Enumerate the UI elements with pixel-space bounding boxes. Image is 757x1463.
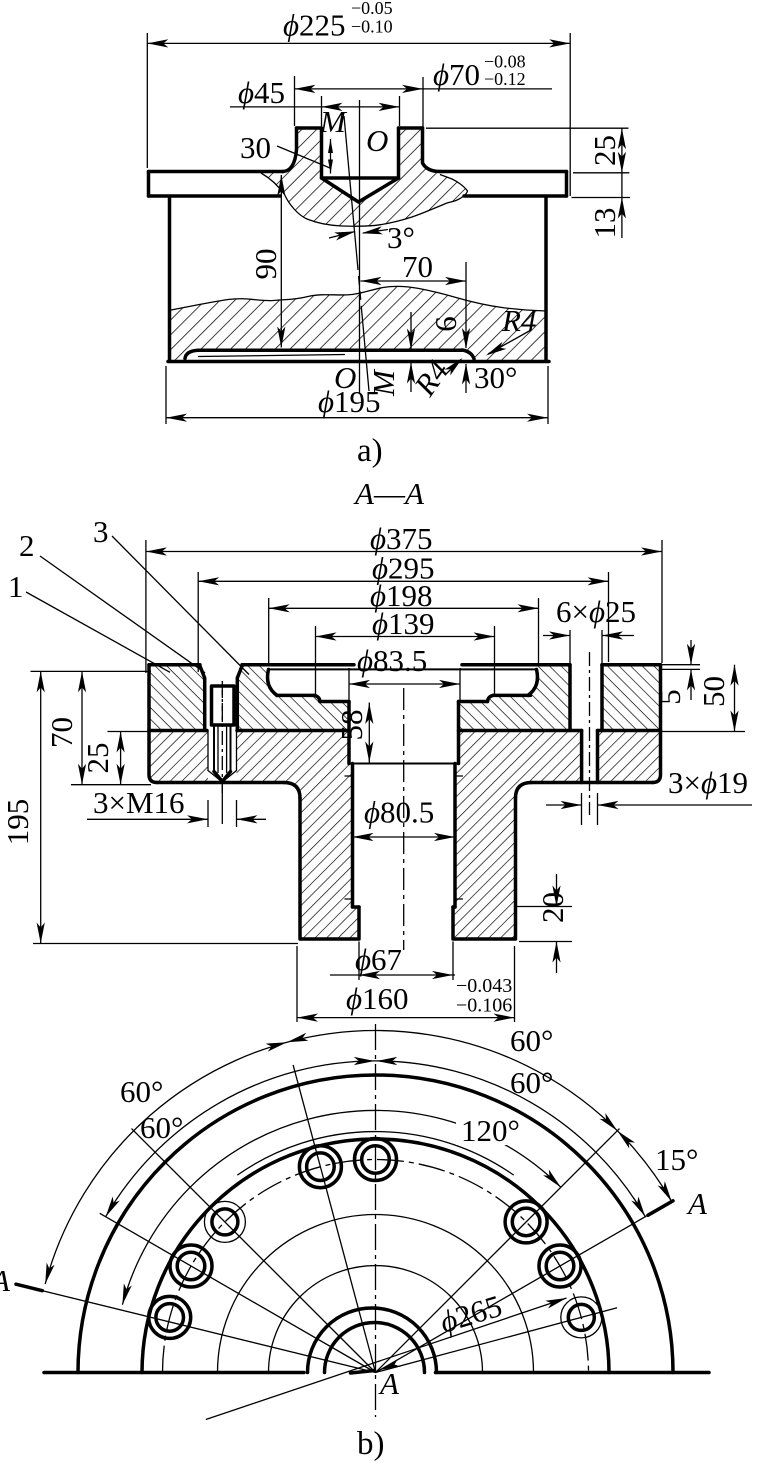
hole 90deg (355, 1139, 397, 1181)
M axis (344, 116, 357, 261)
plate top surface (149, 663, 661, 667)
svg-text:b): b) (357, 1426, 385, 1462)
wavy break line of bottom band (171, 286, 546, 311)
dim 3xphi19 (546, 765, 752, 825)
svg-text:M: M (319, 104, 348, 139)
svg-text:70: 70 (402, 249, 433, 284)
dim 6xphi25 (543, 594, 636, 664)
top plate hatch P4 (602, 666, 661, 730)
phi25 counterbore walls (570, 665, 602, 731)
svg-text:−0.106: −0.106 (456, 995, 512, 1017)
flange left edge (147, 172, 151, 197)
dim phi225 (147, 0, 570, 196)
svg-text:58: 58 (334, 710, 369, 741)
thin arc r241 (237, 1132, 513, 1176)
hole phi45 outline (322, 128, 399, 178)
svg-text:ϕ67: ϕ67 (355, 942, 402, 977)
central hole arc outer (308, 1308, 437, 1373)
label 30 with leader (240, 130, 333, 174)
flange bottom fillets (284, 783, 532, 799)
radial 45deg (376, 1129, 620, 1373)
svg-text:A: A (0, 1263, 11, 1298)
svg-text:−0.05: −0.05 (351, 0, 393, 18)
screw head centerline (221, 690, 223, 722)
svg-text:ϕ195: ϕ195 (318, 384, 381, 419)
dim phi195 (166, 366, 548, 424)
top plate hatch P3 (459, 666, 571, 730)
svg-text:70: 70 (44, 717, 79, 748)
dim 50 (662, 665, 745, 732)
svg-text:ϕ83.5: ϕ83.5 (357, 643, 427, 678)
svg-text:13: 13 (587, 208, 622, 239)
top plate hatch P1 (149, 666, 205, 730)
svg-text:A—A: A—A (353, 476, 425, 511)
step to phi67 (353, 905, 456, 909)
svg-text:ϕ225: ϕ225 (283, 8, 346, 43)
tapped hole walls (208, 731, 237, 772)
svg-text:5: 5 (652, 689, 687, 705)
stud tip (214, 772, 231, 782)
svg-text:120°: 120° (461, 1113, 520, 1148)
svg-text:60°: 60° (120, 1074, 163, 1109)
lower body hatch Q2 (237, 731, 360, 937)
svg-text:30°: 30° (474, 360, 517, 395)
bolt circle phi265 (dash-dot) (163, 1160, 589, 1373)
floor2 left (320, 700, 349, 704)
step to floor1 right (488, 695, 494, 701)
radial 15deg (376, 1308, 618, 1373)
hole 150deg (170, 1245, 212, 1287)
dim phi80.5 (353, 795, 456, 842)
svg-text:3×M16: 3×M16 (93, 785, 185, 820)
right fillet to boss (423, 128, 441, 172)
dim phi295 (198, 551, 608, 673)
outer flange arc phi375 (78, 1075, 673, 1373)
radial 150deg (100, 1213, 376, 1372)
label R4 lower rotated (406, 354, 465, 403)
O axis (359, 100, 361, 393)
step to floor2 left (315, 695, 321, 701)
arc phi139 (269, 1266, 483, 1373)
tapped hole 135deg (204, 1201, 245, 1242)
svg-text:60°: 60° (140, 1110, 183, 1145)
floor1 right (493, 694, 531, 698)
svg-text:A: A (378, 1366, 400, 1401)
M16 counterbore (200, 665, 243, 731)
M16 hole centerline (221, 681, 223, 793)
bottom band hatch (170, 286, 547, 361)
flange right edge (565, 172, 569, 197)
dim phi83.5 (349, 643, 460, 700)
part bottom (168, 360, 549, 364)
view direction arrow at center (378, 1359, 401, 1374)
recess white interior (182, 350, 475, 362)
bore shoulder line (349, 763, 459, 765)
drill axis extension (221, 782, 223, 824)
dim 25 left (80, 732, 151, 785)
phi19 hole walls (582, 731, 598, 783)
svg-text:25: 25 (587, 135, 622, 166)
flange top line (149, 170, 284, 174)
hole 45deg (505, 1201, 547, 1243)
phi19 hole centerline (589, 652, 591, 815)
boss top (297, 126, 423, 130)
svg-text:2: 2 (19, 528, 35, 563)
floor2 right (459, 700, 488, 704)
recess right fillet R4 (462, 350, 474, 359)
central hole arc inner (325, 1323, 425, 1373)
lower flange bottom (157, 781, 653, 785)
svg-text:ϕ160: ϕ160 (346, 981, 409, 1016)
dim phi139 (316, 606, 495, 694)
dim 30deg (462, 360, 518, 395)
spigot arc phi295 (142, 1139, 609, 1373)
dim 6 (407, 312, 463, 392)
body left wall (168, 197, 172, 360)
section line branch 165deg (16, 1284, 376, 1372)
tapped hole 15deg (561, 1297, 602, 1338)
recess surface line (185, 350, 462, 358)
svg-text:20: 20 (535, 892, 570, 923)
svg-text:O: O (366, 123, 388, 158)
label 120 (456, 1114, 518, 1145)
left fillet to boss (283, 128, 297, 172)
svg-text:−0.10: −0.10 (351, 17, 393, 37)
dim 3xM16 (87, 785, 266, 827)
hole 30deg (539, 1245, 581, 1287)
svg-text:a): a) (357, 433, 383, 469)
body bottom face (300, 937, 516, 941)
dim 5 (652, 640, 700, 705)
lower flange left edge (149, 731, 157, 783)
dim phi67 (330, 942, 455, 981)
dim arc r262 (120) (122, 1110, 560, 1304)
phi80.5 bore walls (353, 764, 456, 908)
phi83.5 bore walls (349, 702, 459, 764)
recess inner thin line (198, 355, 345, 357)
svg-text:3×ϕ19: 3×ϕ19 (668, 765, 748, 800)
spigot floor1 left (277, 694, 315, 698)
plate right edge (659, 665, 663, 731)
flange bottom (149, 194, 567, 198)
phi67 walls (359, 907, 453, 938)
section line end stroke right (648, 1201, 673, 1215)
cavity right corner (528, 669, 537, 695)
hole 105deg (299, 1146, 341, 1188)
dim arc r342 (15/60/60) (45, 1031, 672, 1284)
arc phi198 (218, 1215, 534, 1373)
lower body hatch Q1 (149, 731, 208, 782)
VIEW_A_END (0, 476, 752, 1022)
dim 20 (516, 874, 572, 973)
stud shank (214, 725, 231, 772)
leader 1 (26, 592, 170, 672)
interface line (149, 729, 661, 733)
dim phi198 (269, 578, 539, 663)
groove ticks top (345, 775, 464, 777)
tap drill cone (208, 771, 237, 783)
svg-text:15°: 15° (655, 1142, 698, 1177)
screw head (212, 686, 235, 725)
svg-text:60°: 60° (510, 1023, 553, 1058)
radial 105deg (293, 1065, 375, 1373)
dim 70 left (31, 671, 152, 784)
drill cone V (322, 178, 399, 202)
leader 3 (112, 536, 249, 675)
top plate hatch P2 (237, 666, 349, 730)
label R4 upper (484, 303, 536, 359)
dim 70 lower (361, 249, 471, 349)
svg-text:60°: 60° (510, 1065, 553, 1100)
svg-text:R4: R4 (501, 303, 536, 338)
svg-text:195: 195 (0, 799, 35, 846)
dim phi160 (297, 946, 515, 1022)
wavy break line of boss local section (261, 173, 468, 226)
dim arc r311 (60/60) (106, 1061, 646, 1217)
groove ticks bottom (345, 898, 464, 900)
dim phi45 (230, 75, 400, 126)
svg-text:ϕ80.5: ϕ80.5 (364, 795, 434, 830)
dim phi375 (146, 521, 662, 673)
svg-text:ϕ45: ϕ45 (238, 75, 285, 110)
svg-text:ϕ70: ϕ70 (433, 57, 480, 92)
VIEW_AA_END (0, 1023, 709, 1462)
section line end stroke left (16, 1284, 42, 1291)
svg-text:50: 50 (696, 676, 731, 707)
cavity ceiling (269, 668, 537, 670)
body right wall (544, 197, 548, 360)
svg-text:ϕ139: ϕ139 (372, 606, 435, 641)
lower body hatch Q3 (453, 731, 582, 937)
lower flange right edge (653, 731, 661, 783)
section line branch 30deg (376, 1208, 661, 1373)
lower body hatch Q4 (598, 731, 661, 782)
svg-text:−0.12: −0.12 (484, 69, 526, 89)
svg-text:90: 90 (248, 249, 283, 280)
stud thread lines (218, 725, 227, 773)
dim 58 (334, 703, 373, 764)
vertical centerline (375, 1024, 377, 1417)
dim 195 (0, 671, 298, 943)
central body walls (300, 798, 516, 938)
hole 165deg (149, 1296, 191, 1338)
dim 25 right (426, 128, 630, 197)
svg-text:6×ϕ25: 6×ϕ25 (556, 594, 636, 629)
plate left edge (147, 665, 151, 731)
svg-text:A: A (686, 1186, 708, 1221)
local section blob around boss (hatch) (261, 128, 468, 226)
dim phi265 (206, 1288, 568, 1420)
svg-text:25: 25 (80, 743, 115, 774)
section line bend stroke at center (351, 1371, 375, 1374)
svg-text:6: 6 (428, 316, 463, 332)
dim 13 right (587, 173, 626, 239)
main axis centerline (403, 688, 405, 950)
dim phi70 (295, 52, 553, 158)
radial 135deg (132, 1129, 376, 1373)
svg-text:1: 1 (8, 569, 24, 604)
dim 90 (248, 175, 285, 348)
bottom chord line (44, 1371, 709, 1375)
dim 3deg (329, 220, 415, 255)
leader 2 (40, 556, 205, 673)
svg-text:3: 3 (93, 514, 109, 549)
svg-text:30: 30 (240, 130, 271, 165)
cavity left corner (268, 669, 277, 695)
